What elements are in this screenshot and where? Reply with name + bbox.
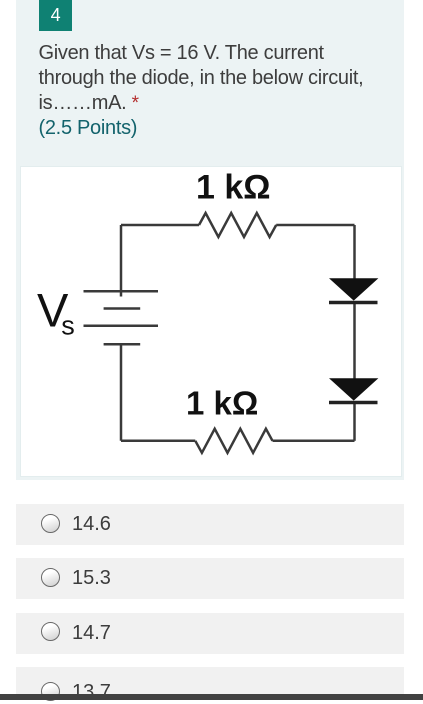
resistor R-top zigzag — [199, 213, 276, 237]
battery long plate 1 — [83, 289, 158, 292]
wire: left vertical lower segment — [119, 344, 122, 441]
resistor R-bottom zigzag — [195, 428, 272, 452]
battery short plate 2 — [103, 342, 140, 345]
battery short plate 1 — [103, 307, 140, 310]
circuit panel — [20, 166, 403, 478]
option row 3 — [16, 613, 404, 654]
bottom dark bar — [0, 694, 423, 700]
option row 4 (cut off) — [16, 667, 404, 700]
diode D1 — [329, 278, 378, 302]
battery Vs plates — [83, 291, 158, 344]
wire: top-left vertical (left wire upper segment) — [119, 225, 122, 297]
question text — [39, 41, 391, 141]
diode D2 — [329, 378, 378, 402]
question number badge 4 — [39, 0, 72, 31]
svg-text:1 kΩ: 1 kΩ — [196, 168, 271, 206]
wire: bottom horizontal right lead — [272, 439, 354, 442]
svg-text:1 kΩ: 1 kΩ — [186, 384, 258, 421]
circuit schematic — [20, 166, 403, 477]
svg-text:s: s — [61, 310, 74, 340]
wire: top horizontal left lead — [121, 223, 199, 226]
option row 2 — [16, 558, 404, 599]
wire: right vertical to diode1 — [353, 225, 356, 279]
battery long plate 2 — [83, 324, 158, 327]
wire: below diode2 to bottom corner — [353, 403, 356, 441]
wire: bottom horizontal left lead — [121, 439, 195, 442]
wire: top horizontal right lead — [276, 223, 354, 226]
option row 1 — [16, 504, 404, 545]
question card background — [16, 0, 405, 480]
wire: between diode1 and diode2 — [353, 303, 356, 379]
